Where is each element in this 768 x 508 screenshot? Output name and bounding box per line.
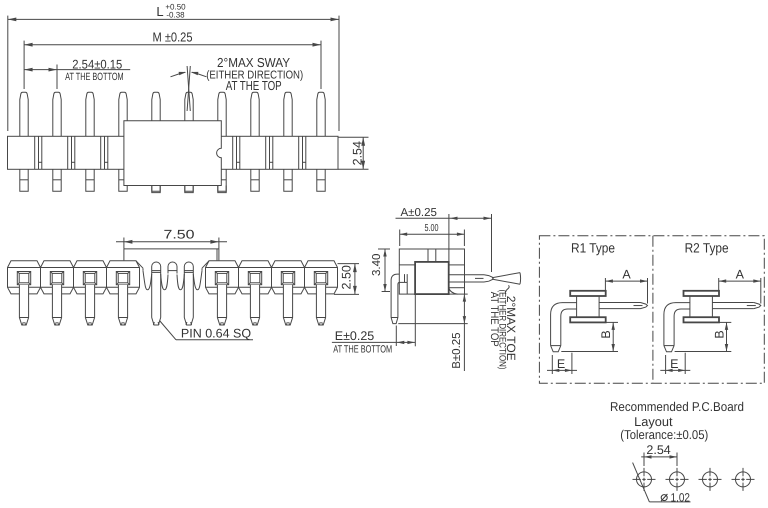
view3 inner cell thick rectangle [415,262,449,294]
dimension 2.54±0.15 AT THE BOTTOM (view1 pitch) [24,57,130,89]
svg-text:A: A [622,268,631,282]
svg-text:2.54: 2.54 [646,443,670,457]
svg-text:(Tolerance:±0.05): (Tolerance:±0.05) [620,427,708,442]
view2 scalloped body bottom edge in cut-away [143,271,202,290]
view2 pin tapers of capsule pins [152,318,194,326]
R-type drawing body (offset 0) [570,291,606,323]
label R1 Type [571,241,615,256]
view2 body cells right group (pins 7-10) [202,261,338,294]
dash-dot boundary box for R1/R2 types [539,236,764,384]
PCB hole 4 with crosshair [732,468,755,491]
R-type bent pin [664,303,690,352]
label 2°MAX TOE (EITHER DIRECTION) AT THE TOP rotated [488,290,518,370]
svg-text:Recommended P.C.Board: Recommended P.C.Board [610,399,744,414]
svg-text:M ±0.25: M ±0.25 [153,30,193,45]
svg-text:PIN 0.64 SQ: PIN 0.64 SQ [181,327,251,341]
dimension 5.00 (view3 body width) [400,223,465,246]
svg-text:1.02: 1.02 [671,490,691,504]
view3 body outline [399,249,464,294]
svg-text:R2 Type: R2 Type [685,241,729,256]
view2 capsule pin 5 (round-top pin in cut-away) [152,262,161,318]
svg-text:2.54: 2.54 [350,141,364,165]
dimension 2.50 vertical (view2 body height) [334,264,359,295]
svg-text:5.00: 5.00 [425,223,439,234]
leader and label ⌀1.02 [633,463,691,505]
svg-text:E: E [557,357,565,371]
R-type mating pin [599,303,647,309]
svg-text:-0.38: -0.38 [166,10,185,19]
svg-text:B±0.25: B±0.25 [451,332,463,368]
svg-text:2.50: 2.50 [340,265,354,289]
dimension 2.54 (hole pitch) [641,443,677,466]
label PIN 0.64 SQ with leader [160,321,254,341]
PCB hole 3 with crosshair [699,468,722,491]
R-type bent pin [551,303,577,352]
view1 top pins (10 square pins with chamfered tips) [20,92,325,136]
view2 long pins under cells [19,285,325,325]
dimension A±0.25 (view3) [396,207,492,272]
dimension B±0.25 (view3) [398,294,467,371]
view3 bent pin (90° formed lead) [391,274,399,324]
dimension E±0.25 AT THE BOTTOM (view3) [332,295,415,356]
view1 insulator body band [8,136,339,169]
svg-text:E: E [670,357,678,371]
svg-text:L: L [156,4,163,19]
R-type dimension E [660,353,690,374]
dimension L +0.50/-0.38 (view1 overall length) [8,2,339,131]
view2 cut-away section box [124,249,219,261]
R-type dimension A [719,268,761,304]
svg-text:AT THE TOP: AT THE TOP [226,78,282,93]
view2 capsule pin 6 (round-top pin in cut-away) [184,262,193,318]
label Recommended P.C.Board Layout (Tolerance:±0.05) [610,399,744,442]
R-type dimension E [547,353,577,374]
R-type mating pin [712,303,760,309]
view3 horizontal mating pin with bullet tip [449,275,494,282]
svg-text:AT THE BOTTOM: AT THE BOTTOM [333,343,392,355]
view2 middle body post capsule [168,262,177,274]
R-type dimension B [675,322,732,351]
view1 bottom pins (10) [20,169,325,191]
view3 pin break marks at exit [405,274,408,282]
svg-text:AT THE TOP: AT THE TOP [488,292,500,347]
dimension 7.50 (view2 cut-away span) [116,228,227,249]
svg-text:AT THE BOTTOM: AT THE BOTTOM [65,71,124,83]
svg-text:B: B [599,330,613,338]
svg-text:R1 Type: R1 Type [571,241,615,256]
svg-text:2.54±0.15: 2.54±0.15 [72,57,122,71]
svg-text:3.40: 3.40 [371,254,383,276]
dimension M ±0.25 (view1 pin span) [24,30,321,90]
svg-text:A: A [736,268,745,282]
svg-text:A±0.25: A±0.25 [401,207,437,219]
view2 body cells left group (pins 1-4) [8,261,144,294]
label R2 Type [685,241,729,256]
view1 pin stubs below cover rectangle [152,186,226,193]
R-type dimension A [605,268,647,304]
svg-text:E±0.25: E±0.25 [335,329,375,343]
svg-text:2°MAX SWAY: 2°MAX SWAY [217,55,290,70]
sway indicator crossed 2° lines and arrows at pin 6 [171,66,207,111]
view1 central body cover rectangle with side notch [124,121,221,186]
dimension 3.40 vertical (view3) [371,249,390,292]
PCB hole 2 with crosshair [666,468,689,491]
svg-text:B: B [712,330,726,338]
label 2°MAX SWAY (EITHER DIRECTION) AT THE TOP [206,55,303,93]
view3 2° toe angle lines at pin tip [492,273,521,295]
view2 horizontal body band lines [8,268,338,288]
R-type dimension B [561,322,618,351]
PCB hole 1 with crosshair [633,468,656,491]
dimension 2.54 vertical (view1 body height) [338,137,369,169]
svg-text:7.50: 7.50 [164,228,195,242]
R-type drawing body (offset 113.3) [684,291,720,323]
